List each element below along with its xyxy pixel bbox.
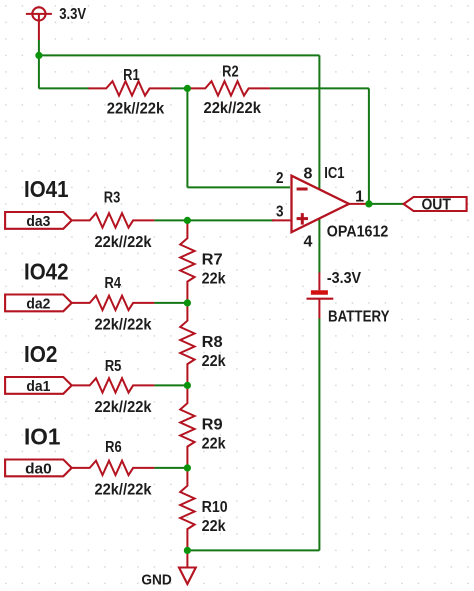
svg-text:IO41: IO41 (24, 176, 69, 202)
svg-text:8: 8 (304, 166, 313, 183)
svg-text:1: 1 (355, 188, 364, 205)
svg-text:R4: R4 (105, 275, 122, 292)
svg-text:22k//22k: 22k//22k (95, 234, 152, 251)
power supply +3.3V symbol (26, 7, 52, 40)
input flag da2 (5, 295, 72, 313)
label R7 (202, 251, 223, 268)
wire battery minus down to GND row (318, 318, 320, 550)
battery B1 symbol (307, 273, 334, 319)
svg-text:da2: da2 (26, 296, 50, 313)
pin number 3 (276, 204, 284, 221)
svg-text:R3: R3 (104, 189, 121, 206)
wire R6 to ladder node D (154, 467, 187, 469)
node 3V3 junction (35, 52, 42, 59)
resistor R2 (187, 81, 270, 95)
ground symbol (179, 550, 196, 584)
label 3.3V (59, 6, 86, 23)
wire to op-amp pin 2 (187, 186, 290, 188)
svg-text:R2: R2 (222, 64, 239, 81)
wire to R1 left pin (39, 87, 90, 89)
svg-text:-3.3V: -3.3V (327, 270, 361, 287)
wire V+ column down to op-amp pin 8 (318, 55, 320, 189)
svg-text:R6: R6 (105, 439, 122, 456)
svg-text:GND: GND (141, 572, 172, 589)
resistor R7 (180, 220, 194, 303)
value R3 22k//22k (95, 234, 152, 251)
wire 3V3 junction down to R1 row (38, 55, 40, 88)
label -3.3V (327, 270, 361, 287)
value R2 22k//22k (204, 100, 261, 117)
label IO41 (24, 176, 69, 202)
svg-text:OPA1612: OPA1612 (327, 223, 389, 240)
resistor R6 (72, 461, 154, 475)
label BATTERY (328, 308, 390, 325)
wire feedback node down to pin 2 row (186, 88, 188, 187)
label R5 (105, 358, 122, 375)
svg-text:IO42: IO42 (24, 259, 69, 285)
wire GND row (187, 549, 319, 551)
svg-text:22k//22k: 22k//22k (95, 482, 152, 499)
node GND junction (184, 547, 191, 554)
svg-text:3: 3 (276, 204, 284, 221)
label IC1 (324, 165, 344, 182)
op-amp IC1 OPA1612 triangle (292, 176, 349, 232)
wire R4 to ladder node B (154, 302, 187, 304)
svg-text:da0: da0 (25, 461, 52, 478)
resistor R3 (72, 213, 154, 227)
pin number 4 (304, 234, 313, 251)
wire feedback column down to output node (368, 88, 370, 203)
input flag da0 (5, 460, 72, 478)
resistor R9 (180, 385, 194, 468)
wire R2 right pin to feedback column (270, 87, 369, 89)
label R2 (222, 64, 239, 81)
wire R1 right to feedback node (171, 87, 188, 89)
svg-text:22k//22k: 22k//22k (204, 100, 261, 117)
label IO1 (24, 424, 61, 450)
svg-text:da1: da1 (26, 378, 50, 395)
label R8 (202, 334, 223, 351)
value R6 22k//22k (95, 482, 152, 499)
output flag OUT (404, 196, 467, 213)
input flag da3 (5, 212, 72, 230)
input flag da1 (5, 377, 72, 395)
svg-text:R8: R8 (202, 334, 223, 351)
resistor R10 (180, 468, 194, 551)
svg-text:4: 4 (304, 234, 313, 251)
wire ladder top node to op-amp pin 3 (187, 219, 274, 221)
wire R3 to ladder top node (154, 219, 187, 221)
svg-text:IO1: IO1 (24, 424, 61, 450)
label IO2 (24, 341, 58, 367)
label R3 (104, 189, 121, 206)
label R4 (105, 275, 122, 292)
label R6 (105, 439, 122, 456)
svg-text:22k: 22k (202, 435, 226, 452)
value R7 22k (202, 270, 226, 287)
node ladder junction B (184, 299, 191, 306)
value R10 22k (202, 518, 226, 535)
svg-text:22k//22k: 22k//22k (95, 317, 152, 334)
svg-text:22k//22k: 22k//22k (107, 100, 164, 117)
svg-text:22k//22k: 22k//22k (95, 399, 152, 416)
label GND (141, 572, 172, 589)
wire output node to OUT flag (369, 203, 404, 205)
svg-text:IC1: IC1 (324, 165, 344, 182)
wire R5 to ladder node C (154, 384, 187, 386)
svg-text:BATTERY: BATTERY (328, 308, 390, 325)
node ladder junction C (184, 382, 191, 389)
power net 3V3 wire from supply to rail (38, 40, 40, 55)
value R5 22k//22k (95, 399, 152, 416)
svg-text:OUT: OUT (421, 196, 451, 213)
resistor R4 (72, 296, 154, 310)
pin number 8 (304, 166, 313, 183)
pin number 2 (276, 170, 284, 187)
label OPA1612 (327, 223, 389, 240)
op-amp U1 pin stubs (272, 204, 369, 221)
node output junction (365, 200, 372, 207)
resistor R5 (72, 378, 154, 392)
svg-text:IO2: IO2 (24, 341, 58, 367)
value R1 22k//22k (107, 100, 164, 117)
svg-text:22k: 22k (202, 270, 226, 287)
label IO42 (24, 259, 69, 285)
value R4 22k//22k (95, 317, 152, 334)
resistor R8 (180, 303, 194, 386)
op-amp minus input mark (297, 188, 308, 191)
svg-text:da3: da3 (26, 213, 50, 230)
node feedback junction R1/R2 (184, 85, 191, 92)
svg-text:R5: R5 (105, 358, 122, 375)
svg-text:22k: 22k (202, 518, 226, 535)
svg-text:R10: R10 (202, 499, 228, 516)
svg-text:3.3V: 3.3V (59, 6, 86, 23)
svg-text:2: 2 (276, 170, 284, 187)
label R1 (123, 67, 140, 84)
value R8 22k (202, 353, 226, 370)
svg-text:R1: R1 (123, 67, 140, 84)
pin number 1 (355, 188, 364, 205)
resistor R1 (88, 81, 170, 95)
op-amp plus input mark (297, 213, 308, 225)
svg-text:22k: 22k (202, 353, 226, 370)
node ladder junction D (184, 464, 191, 471)
wire 3V3 rail to op-amp V+ column (39, 54, 320, 56)
svg-text:R9: R9 (202, 416, 223, 433)
label R9 (202, 416, 223, 433)
node ladder top junction (184, 217, 191, 224)
value R9 22k (202, 435, 226, 452)
svg-text:R7: R7 (202, 251, 223, 268)
label R10 (202, 499, 228, 516)
wire op-amp pin 4 to battery plus (318, 219, 320, 273)
